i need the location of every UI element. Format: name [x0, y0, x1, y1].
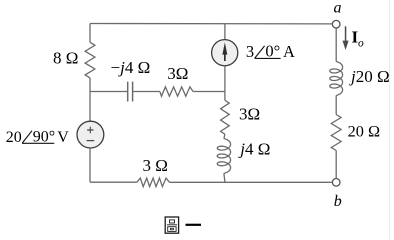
- right page border: [389, 0, 391, 239]
- current source 3/_0 A: [212, 40, 238, 66]
- wire resistor to middle node: [193, 91, 225, 93]
- svg-text:0°: 0°: [265, 42, 280, 61]
- wire middle horizontal left: [90, 91, 128, 93]
- svg-text:3Ω: 3Ω: [239, 104, 260, 123]
- svg-text:a: a: [334, 0, 342, 17]
- voltage source plus: [87, 127, 93, 133]
- angle symbol of 20/_90: [22, 131, 54, 144]
- wire inductor to bottom: [224, 173, 225, 182]
- wire left vertical mid: [89, 78, 91, 121]
- wire resistor to inductor: [224, 134, 225, 138]
- svg-text:3Ω: 3Ω: [167, 64, 188, 83]
- svg-text:j4 Ω: j4 Ω: [238, 140, 270, 159]
- caption: character yi (one): [186, 224, 202, 226]
- resistor 3ohm horizontal: [160, 87, 193, 96]
- wire bottom right: [170, 181, 333, 183]
- voltage source 20/_90 V: [77, 121, 104, 148]
- svg-text:3: 3: [246, 42, 254, 61]
- svg-text:8 Ω: 8 Ω: [53, 49, 78, 68]
- wire right vertical below a: [335, 28, 337, 62]
- wire 20ohm to b: [335, 151, 337, 179]
- resistor 3ohm bottom: [137, 178, 170, 187]
- wire current source to node: [224, 66, 226, 101]
- wire left vertical lower: [89, 148, 91, 182]
- wire inductor to 20ohm: [335, 95, 337, 114]
- angle symbol of 3/_0: [255, 46, 281, 59]
- svg-text:V: V: [57, 129, 69, 146]
- wire left vertical upper: [89, 24, 91, 43]
- terminal a: [332, 20, 340, 28]
- resistor 8ohm: [85, 42, 95, 78]
- wire capacitor to resistor: [133, 91, 160, 93]
- resistor 3ohm vertical: [221, 100, 230, 134]
- arrow Io: [343, 26, 349, 50]
- svg-text:−j4 Ω: −j4 Ω: [111, 58, 151, 77]
- svg-text:20 Ω: 20 Ω: [348, 122, 380, 141]
- voltage source minus: [87, 140, 95, 142]
- terminal b: [332, 179, 340, 187]
- svg-text:o: o: [358, 38, 364, 50]
- svg-text:b: b: [334, 193, 342, 210]
- svg-text:90°: 90°: [33, 129, 55, 146]
- caption: character tu (figure) drawn as strokes: [165, 217, 178, 233]
- wire bottom left: [90, 181, 137, 183]
- capacitor -j4 plates: [128, 82, 133, 102]
- svg-text:20: 20: [6, 129, 22, 146]
- svg-text:j20 Ω: j20 Ω: [349, 67, 390, 86]
- wire top: [90, 23, 332, 25]
- resistor 20ohm: [331, 115, 341, 151]
- svg-text:A: A: [283, 42, 295, 61]
- inductor j4: [217, 139, 230, 174]
- inductor j20: [330, 62, 343, 96]
- svg-text:3 Ω: 3 Ω: [143, 156, 168, 175]
- current source arrow: [222, 42, 227, 61]
- wire middle vertical top: [224, 24, 226, 40]
